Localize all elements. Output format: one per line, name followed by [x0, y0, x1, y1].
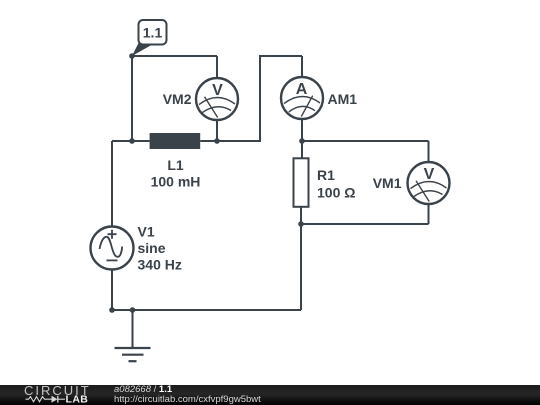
wire	[112, 140, 150, 142]
wire	[216, 120, 218, 141]
svg-text:R1: R1	[317, 167, 335, 183]
wire	[111, 141, 113, 226]
junction	[109, 307, 115, 313]
svg-text:1.1: 1.1	[143, 25, 163, 41]
wire	[131, 56, 133, 141]
resistor R1	[294, 158, 356, 207]
wire	[112, 309, 301, 311]
svg-text:VM1: VM1	[373, 175, 402, 191]
svg-text:100 mH: 100 mH	[151, 174, 201, 190]
wire	[216, 56, 218, 78]
wire	[301, 56, 303, 77]
wire	[300, 207, 302, 310]
footer schematic id text	[114, 384, 261, 405]
svg-text:http://circuitlab.com/cxfvpf9g: http://circuitlab.com/cxfvpf9gw5bwt	[114, 394, 261, 405]
ground	[115, 310, 151, 361]
voltmeter VM2	[163, 78, 238, 120]
CircuitLab logo	[24, 383, 91, 405]
wire	[302, 140, 429, 142]
sine wave	[100, 237, 123, 257]
svg-text:340 Hz: 340 Hz	[138, 257, 182, 273]
junction (node 1.1)	[129, 53, 135, 59]
wire	[301, 119, 303, 158]
junction	[298, 221, 304, 227]
ammeter AM1	[281, 77, 357, 119]
svg-text:LAB: LAB	[66, 394, 89, 405]
junction	[299, 138, 305, 144]
wire	[428, 204, 430, 224]
footer bar	[0, 385, 540, 405]
svg-text:V: V	[212, 82, 223, 99]
wire	[428, 141, 430, 162]
inductor L1	[150, 133, 201, 190]
svg-text:V1: V1	[138, 224, 155, 240]
svg-text:AM1: AM1	[328, 91, 358, 107]
voltmeter VM1	[373, 162, 450, 204]
svg-text:V: V	[424, 166, 435, 183]
wire	[132, 55, 217, 57]
svg-text:100 Ω: 100 Ω	[317, 185, 355, 201]
wire	[200, 56, 302, 141]
svg-text:L1: L1	[167, 157, 184, 173]
wire	[111, 269, 113, 310]
junction	[130, 307, 136, 313]
voltage source V1	[91, 224, 182, 273]
wire	[301, 223, 429, 225]
svg-text:sine: sine	[138, 240, 166, 256]
junction	[129, 138, 135, 144]
svg-text:VM2: VM2	[163, 91, 192, 107]
plus sign	[108, 230, 117, 239]
node 1.1 probe flag	[132, 20, 167, 56]
minus sign	[107, 259, 118, 261]
svg-text:A: A	[296, 81, 308, 98]
junction	[214, 138, 220, 144]
